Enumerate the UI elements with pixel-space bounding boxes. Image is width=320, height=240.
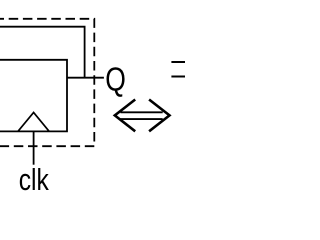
svg-text:clk: clk <box>19 163 50 197</box>
wire feedback from Q to flip-flop input <box>0 27 85 78</box>
wire clk <box>33 131 35 164</box>
equivalence double arrow <box>115 100 170 132</box>
wire to neighbouring cell (bottom, cut off at right edge) <box>171 76 186 78</box>
svg-text:Q: Q <box>105 61 126 98</box>
flip-flop U1 (cut off at left edge) <box>0 60 67 132</box>
wire Q output <box>67 77 104 79</box>
clock input triangle <box>18 113 49 132</box>
wire to neighbouring cell (top, cut off at right edge) <box>171 61 186 63</box>
dashed hierarchy box (cut off at left edge) <box>0 19 94 146</box>
